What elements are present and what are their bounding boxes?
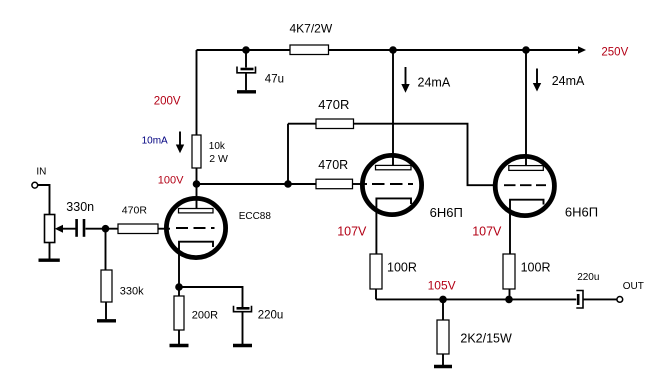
wire 220u to OUT xyxy=(583,298,616,300)
wire 330n to node xyxy=(86,228,119,230)
arrow B+ 250V xyxy=(578,46,586,53)
node rail tube V2 xyxy=(389,46,397,54)
svg-text:330k: 330k xyxy=(120,285,144,297)
wire 100R to output rail xyxy=(509,289,511,299)
resistor R 2K2/15W xyxy=(437,320,512,354)
node 100V anode xyxy=(193,180,201,188)
svg-text:10k: 10k xyxy=(209,141,226,152)
resistor R 470R grid stopper xyxy=(118,205,158,234)
svg-text:250V: 250V xyxy=(601,47,628,59)
ground xyxy=(39,259,60,262)
wire 47u to ground xyxy=(245,73,247,90)
svg-text:24mA: 24mA xyxy=(418,76,451,90)
ground xyxy=(233,344,252,347)
wire 10k to 100V node xyxy=(196,168,198,184)
svg-text:105V: 105V xyxy=(428,279,456,293)
wire plate lead ECC88 xyxy=(196,184,198,209)
wire pot to ground xyxy=(49,243,51,260)
resistor R 330k xyxy=(101,270,144,302)
capacitor C 220u output xyxy=(576,272,599,308)
resistor R 200R xyxy=(174,296,218,330)
svg-text:100V: 100V xyxy=(158,175,184,187)
ground xyxy=(434,365,452,368)
svg-text:47u: 47u xyxy=(265,74,284,86)
input terminal IN xyxy=(32,166,47,188)
current arrow 10mA xyxy=(142,132,185,154)
ground xyxy=(170,344,189,347)
capacitor C 47u xyxy=(237,67,284,86)
wire node to 47u xyxy=(245,50,247,68)
ground xyxy=(237,90,256,93)
wire branch riser xyxy=(287,124,289,184)
svg-text:200V: 200V xyxy=(154,96,181,108)
resistor R 100R tube V3 xyxy=(503,254,550,289)
svg-text:220u: 220u xyxy=(258,309,284,321)
potentiometer P1 xyxy=(45,215,76,243)
svg-text:2 W: 2 W xyxy=(209,153,228,165)
wire node down to 330k xyxy=(105,229,107,270)
tube V2 6N6P xyxy=(362,50,462,254)
node 105V xyxy=(439,296,447,304)
output terminal OUT xyxy=(617,281,644,303)
wire 100V node to driver grids xyxy=(197,183,289,185)
wire 100R to output rail xyxy=(375,289,377,299)
wire lower 470R to tube V2 grid xyxy=(353,183,368,185)
wire cathode to 200R and 220u xyxy=(179,287,243,307)
resistor R 4K7/2W xyxy=(290,22,333,55)
svg-text:470R: 470R xyxy=(318,158,348,172)
wire B+ riser xyxy=(196,50,198,135)
ground xyxy=(97,319,116,322)
node junction xyxy=(102,225,110,233)
resistor R 10k 2W xyxy=(192,135,228,168)
node rail tube V3 xyxy=(522,46,530,54)
tube U1 ECC88 xyxy=(166,198,271,287)
wire 330k to ground xyxy=(105,302,107,319)
svg-text:107V: 107V xyxy=(337,225,367,239)
svg-text:107V: 107V xyxy=(472,224,502,238)
tube V3 6N6P xyxy=(495,50,598,254)
resistor R 470R lower xyxy=(288,158,353,189)
svg-text:OUT: OUT xyxy=(623,281,644,292)
wire top rail right xyxy=(329,49,579,51)
svg-text:100R: 100R xyxy=(521,261,551,275)
svg-text:200R: 200R xyxy=(192,309,218,321)
wire 2K2 to ground xyxy=(442,354,444,365)
resistor R 470R upper xyxy=(288,97,354,128)
wire output rail xyxy=(376,298,576,300)
wire 105V node to 2K2 xyxy=(442,299,444,320)
node grid branch xyxy=(284,180,292,188)
svg-text:100R: 100R xyxy=(387,261,417,275)
current arrow 24mA tube V2 xyxy=(401,67,451,93)
wire top rail left xyxy=(197,49,291,51)
resistor R 100R tube V2 xyxy=(370,254,417,289)
node output cap branch xyxy=(505,296,513,304)
wire 470R to grid xyxy=(158,228,170,230)
wire input to potentiometer xyxy=(38,185,50,215)
svg-text:ECC88: ECC88 xyxy=(239,211,272,222)
wire 200R to ground xyxy=(178,330,180,344)
svg-text:220u: 220u xyxy=(577,272,599,283)
svg-text:330n: 330n xyxy=(66,200,94,214)
svg-text:470R: 470R xyxy=(318,97,349,112)
node rail 47u xyxy=(242,46,250,54)
svg-text:2K2/15W: 2K2/15W xyxy=(460,332,512,346)
wire cathode node xyxy=(175,283,183,291)
capacitor C 220u cathode bypass xyxy=(234,306,284,322)
svg-text:24mA: 24mA xyxy=(552,74,585,88)
capacitor C 330n xyxy=(66,200,94,237)
svg-text:10mA: 10mA xyxy=(142,135,168,146)
svg-text:470R: 470R xyxy=(122,205,148,217)
wire 220u to ground xyxy=(242,312,244,344)
svg-text:6Н6П: 6Н6П xyxy=(565,204,598,219)
svg-text:IN: IN xyxy=(36,166,46,177)
current arrow 24mA tube V3 xyxy=(533,69,585,92)
svg-text:4K7/2W: 4K7/2W xyxy=(290,22,333,36)
svg-text:6Н6П: 6Н6П xyxy=(430,205,463,220)
wire upper 470R to tube V3 grid xyxy=(354,124,496,186)
